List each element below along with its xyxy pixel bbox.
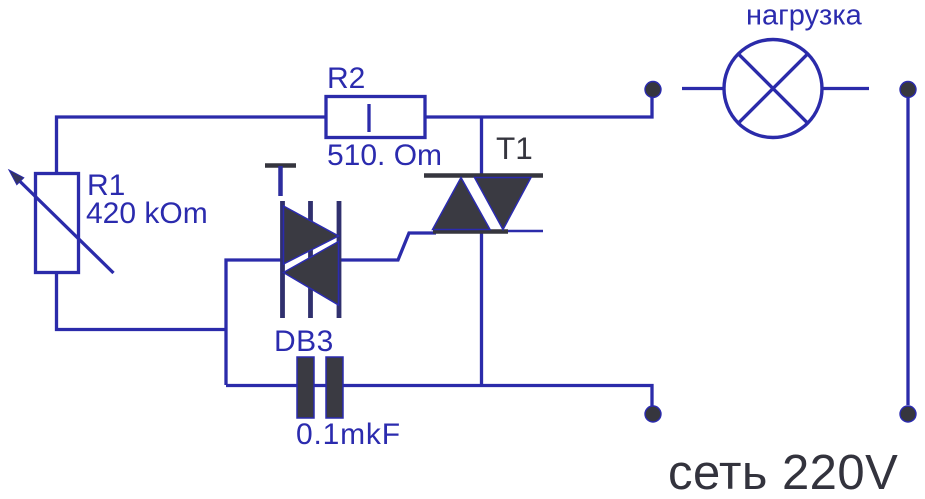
svg-text:T1: T1 xyxy=(496,130,533,166)
wire: riser to diac left xyxy=(225,258,282,261)
svg-text:420 kOm: 420 kOm xyxy=(86,197,208,230)
capacitor C1 plates xyxy=(297,357,343,418)
lamp (load) xyxy=(682,40,869,138)
svg-text:510. Om: 510. Om xyxy=(327,139,442,172)
node: top-left terminal dot xyxy=(645,82,661,98)
wire: right vertical between terminals xyxy=(906,98,909,405)
svg-text:0.1mkF: 0.1mkF xyxy=(296,418,401,451)
wire: bottom horizontal to bottom-left terminal xyxy=(226,386,652,407)
wire: diac right to triac gate xyxy=(340,233,436,260)
resistor R1 (variable) xyxy=(9,170,114,273)
wire: triac main vertical upper xyxy=(480,117,483,176)
wire: R1 bottom to left riser xyxy=(57,273,227,330)
wire: triac main vertical lower xyxy=(480,232,483,385)
wire: left riser vertical xyxy=(224,259,227,386)
wire: R2 right to top terminal riser xyxy=(425,97,652,117)
svg-text:сеть 220V: сеть 220V xyxy=(668,446,898,499)
node: top-right terminal dot xyxy=(900,82,916,98)
resistor R2 xyxy=(326,97,425,138)
diac DB3 xyxy=(283,201,340,318)
wire: top-left corner R1 top to R2 left xyxy=(57,117,327,174)
node: bottom-left terminal dot xyxy=(645,406,661,422)
svg-text:DB3: DB3 xyxy=(274,325,334,358)
triac T1 xyxy=(424,176,543,232)
svg-text:R2: R2 xyxy=(327,62,365,95)
node: bottom-right terminal dot xyxy=(900,406,916,422)
svg-text:нагрузка: нагрузка xyxy=(746,0,863,32)
T mark above diac xyxy=(265,166,296,197)
